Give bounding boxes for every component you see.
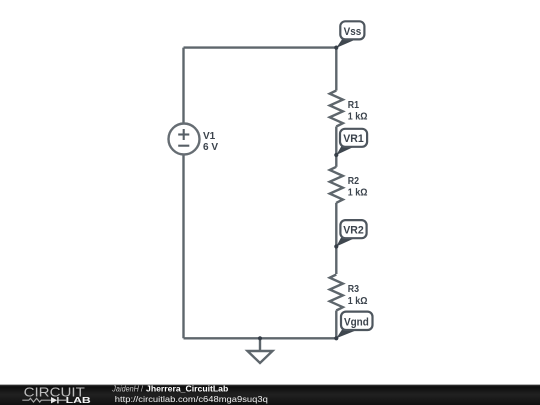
wire R2 to R3 [335,203,337,274]
footer bar [0,385,540,405]
wire R1 to R2 [335,127,337,167]
V1 plus sign [178,129,189,140]
resistor R1 zigzag [330,91,343,127]
wire top horizontal [184,46,337,48]
svg-text:1 kΩ: 1 kΩ [348,188,368,199]
svg-text:http://circuitlab.com/c648mga9: http://circuitlab.com/c648mga9suq3q [115,394,268,404]
V1 minus sign [178,145,189,147]
ground junction dot [258,336,262,340]
flag VR1 pointer [336,146,355,155]
svg-text:Jherrera_CircuitLab: Jherrera_CircuitLab [146,384,229,393]
svg-text:R2: R2 [348,176,360,187]
flag Vss pointer [336,39,357,48]
svg-text:6 V: 6 V [203,142,218,153]
flag VR2 box [340,220,366,238]
flag Vgnd pointer [336,330,357,339]
svg-text:Vss: Vss [344,26,362,38]
resistor R3 zigzag [330,275,343,311]
node Vgnd junction dot [334,336,338,340]
svg-text:VR2: VR2 [343,225,364,237]
flag VR1 box [340,129,367,147]
wire left rail lower [182,155,184,339]
resistor R2 zigzag [330,167,343,203]
svg-text:Vgnd: Vgnd [344,316,369,328]
wire R3 to bottom [335,311,337,339]
flag Vss box [340,21,364,39]
svg-text:R1: R1 [348,100,360,111]
svg-text:VR1: VR1 [343,133,364,145]
svg-text:1 kΩ: 1 kΩ [348,296,368,307]
voltage source V1 circle [169,124,200,155]
svg-text:R3: R3 [348,284,360,295]
flag VR2 pointer [336,238,355,247]
node Vss junction dot [334,46,338,50]
logo resistor squiggle [22,398,51,402]
node VR1 junction dot [334,153,338,157]
svg-text:JaidenH: JaidenH [111,384,139,393]
wire bottom horizontal [184,337,337,339]
wire right rail Vss to R1 [335,48,337,91]
svg-text:LAB: LAB [66,395,91,405]
wire left rail upper [182,48,184,124]
ground symbol [248,338,273,363]
logo diode symbol [51,397,57,403]
svg-text:V1: V1 [203,131,216,142]
node VR2 junction dot [334,244,338,248]
svg-text:1 kΩ: 1 kΩ [348,112,368,123]
flag Vgnd box [341,312,373,330]
